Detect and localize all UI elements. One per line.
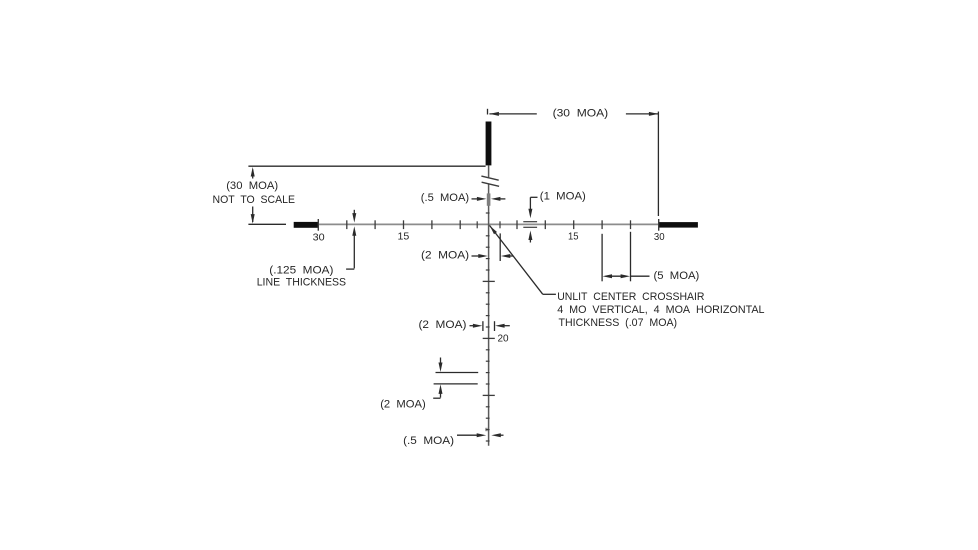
svg-text:(1 MOA): (1 MOA) — [540, 191, 586, 203]
svg-text:(5 MOA): (5 MOA) — [654, 270, 700, 282]
svg-text:NOT TO SCALE: NOT TO SCALE — [213, 194, 296, 206]
svg-text:(.5 MOA): (.5 MOA) — [403, 435, 454, 447]
svg-text:(2 MOA): (2 MOA) — [380, 399, 426, 411]
svg-text:30: 30 — [654, 231, 665, 243]
svg-text:20: 20 — [498, 333, 509, 345]
svg-text:4 MO VERTICAL, 4 MOA HORI: 4 MO VERTICAL, 4 MOA HORIZONTAL — [557, 304, 764, 316]
svg-text:THICKNESS (.07 MOA): THICKNESS (.07 MOA) — [559, 317, 678, 329]
svg-text:(2 MOA): (2 MOA) — [421, 249, 469, 261]
svg-text:(30 MOA): (30 MOA) — [553, 107, 609, 119]
svg-text:(.5 MOA): (.5 MOA) — [421, 192, 470, 204]
svg-text:LINE THICKNESS: LINE THICKNESS — [257, 276, 347, 288]
svg-text:(.125 MOA): (.125 MOA) — [269, 264, 333, 276]
svg-text:(30 MOA): (30 MOA) — [226, 180, 278, 192]
svg-text:(2 MOA): (2 MOA) — [419, 319, 467, 331]
svg-text:UNLIT CENTER CROSSHAIR: UNLIT CENTER CROSSHAIR — [557, 291, 704, 303]
svg-text:15: 15 — [398, 231, 410, 243]
svg-text:15: 15 — [568, 231, 579, 243]
svg-text:30: 30 — [313, 231, 325, 243]
